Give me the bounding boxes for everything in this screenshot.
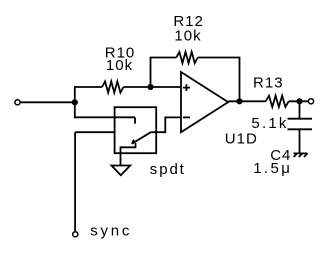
svg-text:1.5μ: 1.5μ bbox=[253, 160, 292, 177]
wire sync corner to switch box bbox=[75, 131, 115, 133]
switch arm tick bbox=[132, 140, 134, 144]
ground bbox=[112, 166, 131, 176]
op-amp U1D bbox=[181, 72, 228, 132]
wire junction down to C4 bbox=[299, 101, 301, 118]
wire R12 right and down to output node bbox=[198, 58, 240, 102]
wire C4 to chassis ground bbox=[299, 129, 301, 153]
node RC junction bbox=[296, 98, 302, 104]
svg-text:R13: R13 bbox=[253, 74, 284, 91]
wire R13 to output terminal bbox=[289, 100, 308, 102]
switch arm diagonal bbox=[132, 132, 151, 143]
output terminal (right) bbox=[308, 99, 313, 104]
svg-text:5.1k: 5.1k bbox=[251, 115, 288, 132]
wire switch arm to op-amp minus input bbox=[151, 117, 181, 132]
resistor R13 bbox=[266, 96, 289, 107]
resistor R10 bbox=[102, 81, 124, 92]
wire input to junction bbox=[21, 101, 75, 103]
node feedback tap bbox=[147, 84, 153, 90]
svg-text:spdt: spdt bbox=[150, 161, 186, 178]
op-amp plus sign bbox=[183, 84, 190, 91]
svg-text:10k: 10k bbox=[174, 28, 201, 45]
wire R10 to op-amp plus input bbox=[124, 86, 182, 88]
svg-text:U1D: U1D bbox=[225, 130, 258, 147]
switch throw contact stub bbox=[134, 117, 136, 123]
capacitor C4 bbox=[288, 119, 313, 130]
terminal sync bbox=[73, 232, 78, 237]
input terminal (left) bbox=[15, 100, 20, 105]
chassis ground bbox=[294, 153, 308, 157]
op-amp minus sign bbox=[183, 116, 190, 118]
wire junction up and right to R10 bbox=[75, 87, 102, 102]
svg-text:10k: 10k bbox=[106, 57, 133, 74]
switch S1 box bbox=[115, 107, 157, 153]
wire junction down and into switch throw contact bbox=[75, 102, 135, 117]
wire switch pivot to ground bbox=[121, 143, 136, 166]
wire feedback tap up to R12 bbox=[151, 58, 177, 88]
node output junction bbox=[236, 98, 242, 104]
wire sync vertical bbox=[74, 132, 76, 231]
wire op-amp output bbox=[228, 100, 266, 102]
svg-text:sync: sync bbox=[90, 222, 132, 239]
node input junction bbox=[72, 99, 78, 105]
resistor R12 bbox=[176, 52, 198, 63]
